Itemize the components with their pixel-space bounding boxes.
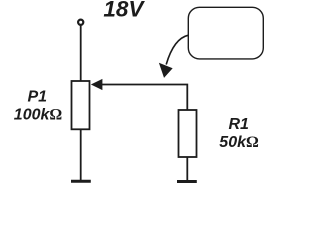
callout arrow to wiper [160,35,189,77]
svg-text:18V: 18V [103,0,145,21]
wire from R1 bottom to ground [186,157,188,180]
ground of P1 [71,180,91,183]
svg-text:100kΩ: 100kΩ [14,107,63,124]
wire from P1 bottom to ground [80,129,82,180]
terminal 18V [78,20,83,25]
label 18V [103,0,145,21]
svg-text:R1: R1 [229,116,250,133]
resistor R1 body [179,110,197,157]
callout box [188,7,263,59]
value 50kΩ [219,134,259,151]
potentiometer P1 body [72,81,90,129]
value 100kΩ [14,107,63,124]
svg-text:P1: P1 [28,89,48,106]
wire from terminal to P1 top [80,26,82,82]
ground of R1 [177,180,197,183]
label P1 [28,89,48,106]
wiper arrow of P1 [92,80,188,111]
svg-text:50kΩ: 50kΩ [219,134,259,151]
label R1 [229,116,250,133]
